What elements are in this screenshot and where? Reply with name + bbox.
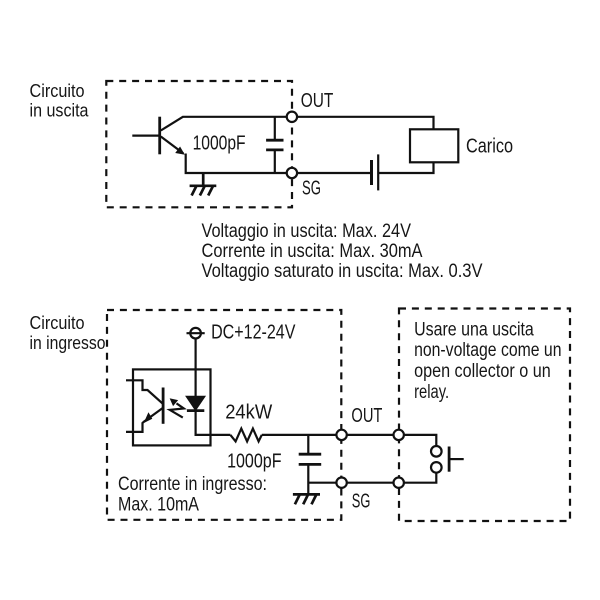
svg-text:Voltaggio saturato in uscita:: Voltaggio saturato in uscita: Max. 0.3V xyxy=(202,261,483,282)
svg-text:Circuito: Circuito xyxy=(30,80,85,101)
svg-text:relay.: relay. xyxy=(414,382,449,403)
note: external contact text xyxy=(414,320,561,404)
svg-text:OUT: OUT xyxy=(351,405,382,427)
switch S1 contacts xyxy=(431,446,442,457)
dashed box: external contact xyxy=(399,309,570,522)
label "Circuito in ingresso" xyxy=(30,312,106,353)
load box "Carico" xyxy=(410,129,458,162)
svg-text:open collector o un: open collector o un xyxy=(414,361,551,382)
svg-text:1000pF: 1000pF xyxy=(193,132,246,155)
svg-text:in ingresso: in ingresso xyxy=(30,332,106,353)
dashed box: output circuit xyxy=(106,81,292,207)
light arrow (optocoupler) xyxy=(170,399,184,418)
svg-text:non-voltage come un: non-voltage come un xyxy=(414,340,561,361)
dashed box: input circuit xyxy=(107,310,341,520)
switch S1 actuator xyxy=(449,447,464,472)
svg-text:1000pF: 1000pF xyxy=(227,451,281,473)
ground (output circuit) xyxy=(190,173,217,196)
svg-text:in uscita: in uscita xyxy=(30,99,90,120)
svg-text:Circuito: Circuito xyxy=(30,312,85,333)
wire: collector top rail to Carico drop xyxy=(182,117,433,173)
svg-text:Usare una uscita: Usare una uscita xyxy=(414,320,534,341)
wire: SG rail from circle to battery xyxy=(292,172,372,174)
note: output ratings text xyxy=(202,221,483,282)
node: SG on external box border xyxy=(394,478,404,488)
svg-text:SG: SG xyxy=(352,491,371,513)
transistor Q1 (NPN) xyxy=(132,117,184,155)
svg-text:24kW: 24kW xyxy=(225,402,272,424)
capacitor C1 1000pF (output) xyxy=(266,117,283,173)
optocoupler U1 box xyxy=(133,369,211,445)
capacitor C2 1000pF (input) xyxy=(299,435,322,495)
note: input current text xyxy=(118,474,267,516)
svg-text:SG: SG xyxy=(302,178,321,200)
svg-text:Corrente in ingresso:: Corrente in ingresso: xyxy=(118,474,267,495)
node: SG on input box border xyxy=(336,478,346,488)
node: OUT on input box border xyxy=(336,430,346,440)
label "Circuito in uscita" xyxy=(30,80,90,121)
svg-text:Max. 10mA: Max. 10mA xyxy=(118,495,199,516)
terminal SG (output circuit) xyxy=(287,168,297,178)
svg-text:DC+12-24V: DC+12-24V xyxy=(211,321,296,343)
svg-text:Voltaggio in uscita: Max. 24V: Voltaggio in uscita: Max. 24V xyxy=(202,221,412,242)
wire: OUT rail (input circuit) xyxy=(262,435,437,446)
node: OUT on external box border xyxy=(394,430,404,440)
terminal DC+12-24V xyxy=(187,328,205,339)
svg-text:Corrente in uscita: Max. 30mA: Corrente in uscita: Max. 30mA xyxy=(202,241,423,262)
resistor R1 24kW xyxy=(230,429,261,442)
svg-text:OUT: OUT xyxy=(301,90,334,112)
wire: emitter bottom rail xyxy=(186,154,292,174)
wire: DC terminal down to LED anode xyxy=(195,339,197,397)
LED D1 (optocoupler right) xyxy=(186,396,230,435)
phototransistor (optocoupler left) xyxy=(126,380,163,432)
wire: SG rail (input circuit) xyxy=(308,473,436,483)
ground (input circuit) xyxy=(293,494,320,504)
battery B1 xyxy=(372,154,379,190)
terminal OUT (output circuit) xyxy=(287,112,297,122)
svg-text:Carico: Carico xyxy=(466,134,513,157)
